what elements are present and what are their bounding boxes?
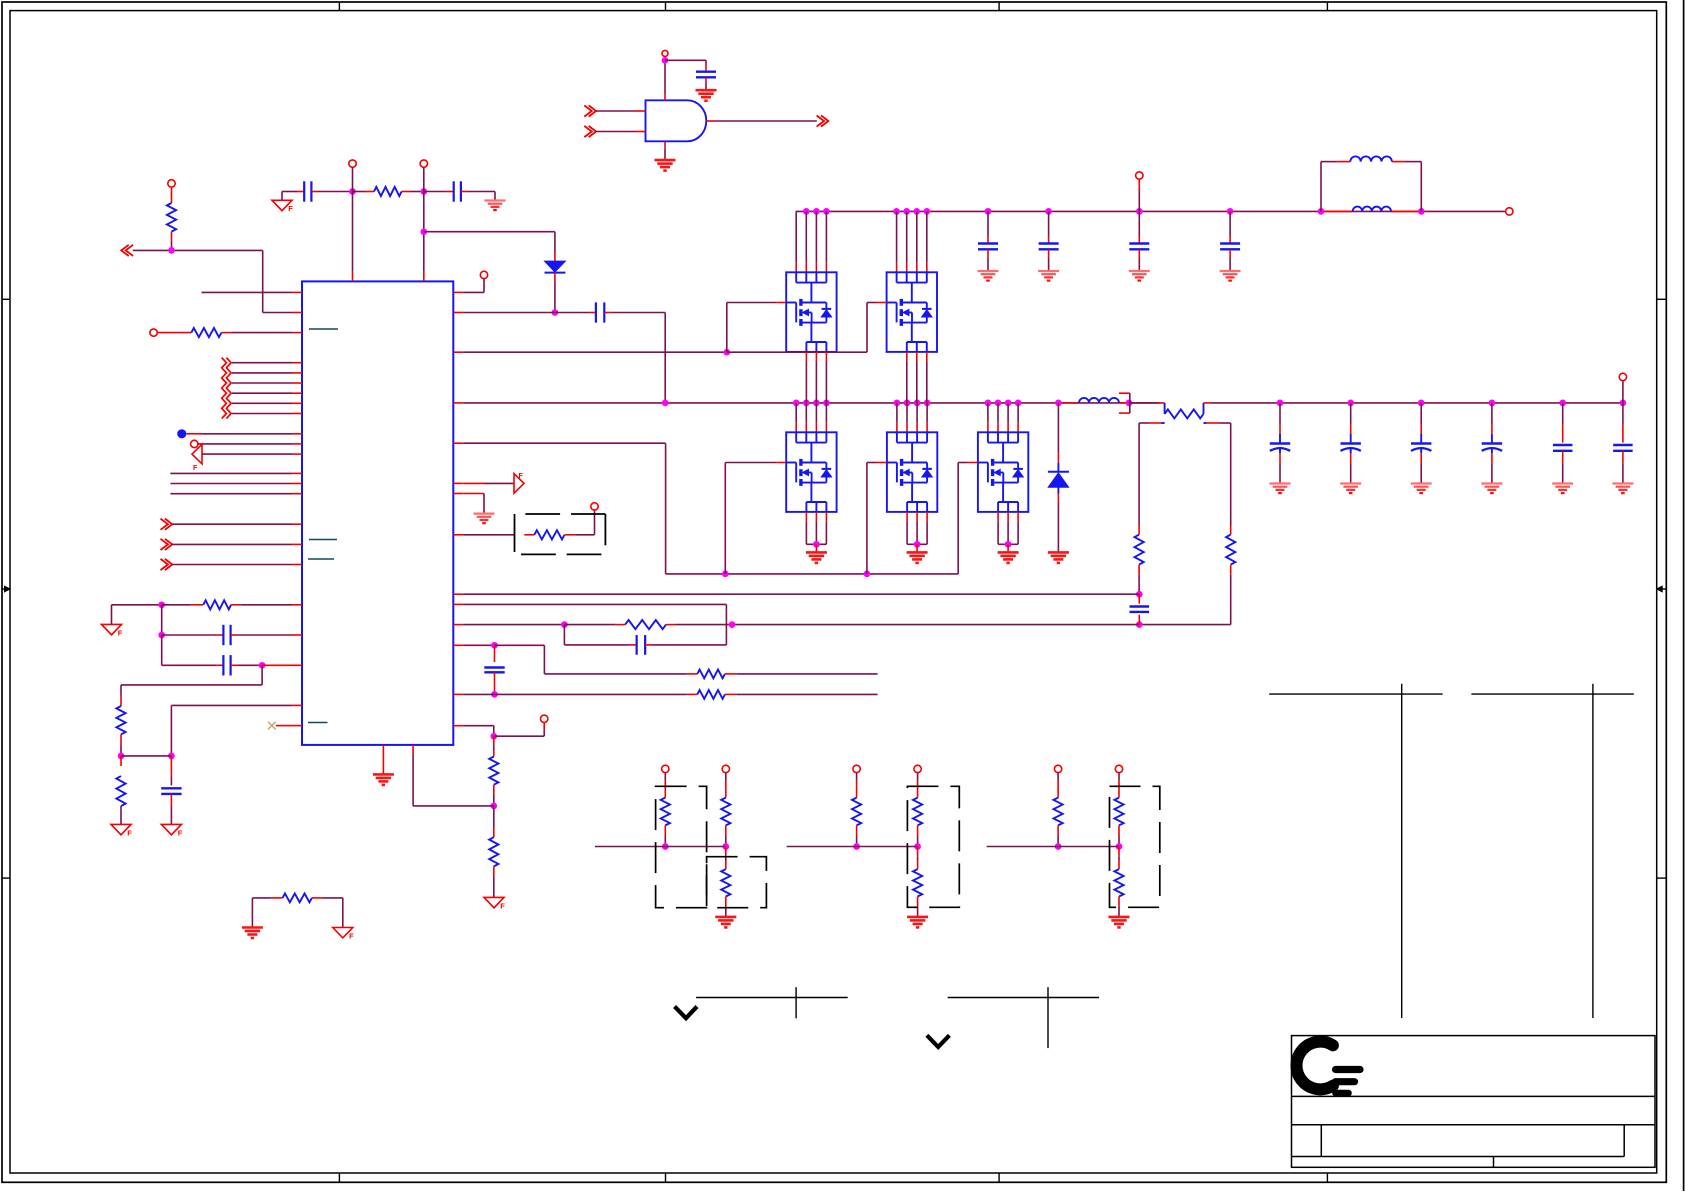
power flag F right row 483: [463, 482, 484, 484]
wire C down: [161, 605, 163, 635]
resistor R1 (pull-up): [168, 180, 175, 187]
resistor (divider top): [661, 798, 670, 826]
node L junction: [1126, 400, 1133, 407]
node N junction: [1136, 621, 1143, 628]
ground: [806, 551, 827, 554]
resistor R10: [564, 624, 615, 626]
node K junction: [552, 309, 559, 316]
node O junction: [561, 621, 568, 628]
no-connect x row 725: [276, 725, 292, 727]
U2 power pin net: [664, 93, 666, 100]
resistor R6: [353, 191, 366, 193]
resistor (divider top): [852, 798, 861, 826]
node junction: [1116, 843, 1123, 850]
ground: [907, 551, 928, 554]
revision table vertical B: [1592, 684, 1594, 1018]
earth ground: [1340, 482, 1361, 484]
capacitor C9: [1138, 211, 1140, 236]
earth ground: [485, 199, 506, 201]
border mid arrow left: [2, 588, 10, 590]
resistor R14: [493, 736, 495, 746]
gate drive low-side (row 443): [463, 442, 665, 444]
power flag F below R5: [111, 824, 131, 834]
wire D down: [161, 635, 163, 665]
node Q junction: [491, 642, 498, 649]
resistor R15: [493, 806, 495, 827]
node G junction: [168, 753, 175, 760]
border zone ticks top: [338, 2, 340, 11]
node junction: [662, 843, 669, 850]
svg-text:F: F: [519, 473, 524, 480]
U1 right pins: [453, 291, 463, 293]
node junction: [853, 843, 860, 850]
power flag F (left) row 454: [192, 444, 202, 464]
capacitor C4: [282, 191, 297, 193]
pin header J3 (bus end): [1506, 208, 1513, 215]
wires bus to Q3/Q4/Q5 top pins: [795, 403, 797, 422]
wire net P1 to U1: [133, 249, 263, 251]
earth ground: [1220, 270, 1241, 272]
pin header J4: [1136, 172, 1143, 179]
dashed module box: [707, 857, 767, 908]
resistor R9 (sense right): [1230, 525, 1232, 535]
AND gate U2: [646, 100, 707, 141]
wire row 312 net (boot): [463, 312, 548, 314]
node C junction: [158, 601, 165, 608]
resistor (divider top 2): [913, 798, 922, 826]
capacitor C11: [589, 312, 596, 314]
ground: [696, 89, 717, 92]
wire row 705: [171, 704, 292, 706]
wires ports to U1: [172, 523, 292, 525]
ground: [998, 551, 1019, 554]
ground: [1048, 551, 1069, 554]
datum line 2: [948, 997, 1099, 999]
wire I down to U1: [423, 192, 425, 272]
datum tick 1: [795, 987, 797, 1018]
dashed module box: [656, 786, 707, 907]
border zone ticks bottom: [338, 1173, 340, 1182]
resistor (divider bottom): [917, 847, 919, 857]
wire J to diode: [424, 231, 555, 233]
datum tick 2: [1047, 987, 1049, 1048]
pin header: [722, 765, 729, 772]
node F junction: [118, 753, 125, 760]
capacitor C20: [1622, 403, 1624, 424]
border zone ticks left: [2, 298, 10, 300]
wires bus to Q1 top pins: [795, 211, 797, 262]
earth ground: [1038, 270, 1059, 272]
svg-text:F: F: [193, 465, 198, 472]
circle pin row 444: [191, 440, 198, 447]
capacitor C10: [1229, 211, 1231, 236]
transistor Q2 (dual MOSFET pack): [887, 272, 937, 352]
ground: [1109, 916, 1130, 919]
svg-text:F: F: [349, 931, 354, 940]
capacitor C12: [1138, 594, 1140, 604]
pin header: [662, 765, 669, 772]
resistor (divider top 2): [721, 798, 730, 826]
wire stubs rows 473-494: [170, 472, 292, 474]
ground: [907, 916, 928, 919]
border zone ticks right: [1657, 298, 1667, 300]
resistor (divider top): [1054, 798, 1063, 826]
node R junction: [491, 691, 498, 698]
capacitor C6: [705, 65, 707, 72]
node junction: [722, 843, 729, 850]
chevron chain ports (6 rows): [226, 358, 231, 419]
ground: [242, 926, 263, 929]
revision table line A: [1269, 693, 1442, 695]
node S junction: [490, 733, 497, 740]
port P1 (left chevron): [121, 245, 128, 256]
wires chevron rows: [232, 362, 292, 364]
diode D1: [554, 252, 556, 261]
wire gate drive Q1/Q2 (row 352): [463, 351, 727, 353]
capacitor C7: [987, 211, 989, 236]
resistor R12: [495, 693, 687, 695]
wire row 645: [463, 644, 494, 646]
inductor L1 (top): [1320, 162, 1322, 212]
port P7 output: [821, 115, 828, 126]
capacitor C8: [1048, 211, 1050, 236]
U1 ground pin: [382, 755, 384, 775]
node A junction: [168, 247, 175, 254]
diode D2: [1055, 400, 1062, 407]
svg-text:F: F: [178, 828, 183, 837]
svg-text:F: F: [118, 628, 123, 637]
node P junction: [729, 621, 736, 628]
node I junction: [420, 188, 427, 195]
node D junction: [158, 632, 165, 639]
pin header J1: [349, 160, 356, 167]
border mid arrow right: [1657, 588, 1667, 590]
pin header: [1054, 765, 1061, 772]
resistor R2 (row 332): [150, 329, 157, 336]
resistor R4: [120, 696, 122, 706]
capacitor C5: [424, 191, 447, 193]
ground row 493: [463, 493, 484, 495]
wire +V bus: [796, 210, 1506, 212]
ground: [373, 773, 394, 776]
transistor Q4 (dual MOSFET pack): [887, 432, 937, 512]
resistor R11: [544, 673, 687, 675]
capacitor C19: [1562, 403, 1564, 424]
node junction: [1055, 843, 1062, 850]
wire row 846: [987, 846, 1119, 848]
inductor L3: [1062, 402, 1079, 404]
node B blue dot port: [177, 429, 186, 438]
earth ground: [978, 270, 999, 272]
resistor R3: [162, 604, 191, 606]
earth ground: [1270, 482, 1291, 484]
pin header J6: [591, 503, 598, 510]
op-amp U1 controller IC body: [302, 281, 453, 745]
transistor Q1 (dual MOSFET pack): [786, 272, 836, 352]
svg-text:F: F: [127, 828, 132, 837]
phase bus junctions: [662, 400, 669, 407]
wire input A: [596, 110, 635, 112]
capacitor C16 (polarized): [1350, 403, 1352, 424]
wire row 604: [463, 603, 726, 605]
resistor R8 (sense left): [1138, 525, 1140, 535]
resistor R5: [120, 756, 122, 766]
earth ground: [1552, 482, 1573, 484]
node E junction: [259, 662, 266, 669]
wire output bus: [1211, 402, 1623, 404]
U1 internal pin-name overbars: [309, 328, 338, 330]
power flag F row 604: [102, 624, 122, 634]
ground: [715, 916, 736, 919]
resistor (divider bottom): [1118, 847, 1120, 857]
port P6 input B: [589, 126, 596, 137]
node M junction: [1136, 591, 1143, 598]
wire row 694: [463, 693, 494, 695]
transistor Q5 (dual MOSFET pack): [978, 432, 1028, 512]
node H junction: [349, 188, 356, 195]
ground: [655, 159, 676, 162]
pin header J7: [541, 715, 548, 722]
company logo: [1297, 1042, 1333, 1090]
U2 gnd pin: [664, 141, 666, 148]
wire H down to U1: [352, 192, 354, 272]
U1 left pins: [292, 291, 302, 293]
wire row 292 right circle pin: [463, 291, 484, 293]
ports P2-P4 (right chevrons): [165, 519, 172, 530]
node junction: [914, 843, 921, 850]
svg-text:F: F: [288, 204, 293, 213]
wire U1 bottom pin 2: [412, 755, 414, 806]
earth ground: [1612, 482, 1633, 484]
node T junction: [490, 803, 497, 810]
earth ground: [1481, 482, 1502, 484]
wire phase bus: [463, 402, 1160, 404]
earth ground: [1411, 482, 1432, 484]
resistor R16: [252, 897, 271, 899]
capacitor C3: [170, 756, 172, 777]
resistor R7 (current sense): [1129, 402, 1158, 404]
resistor R13 (row 534, in dashed box): [463, 534, 514, 536]
capacitor C18 (polarized): [1491, 403, 1493, 424]
power flag F: [333, 928, 353, 938]
Q3/Q4/Q5 source pins to ground: [805, 512, 807, 522]
inductor L2 (bottom): [1324, 210, 1353, 212]
wire row 846: [595, 846, 726, 848]
U1 top pins: [352, 271, 354, 281]
svg-text:F: F: [500, 901, 505, 910]
power flag F below R15: [484, 897, 504, 907]
wire E down-left: [261, 665, 263, 685]
wire input B: [596, 131, 635, 133]
title block: [1292, 1036, 1656, 1168]
node J junction: [420, 228, 427, 235]
wire stub row 292: [202, 291, 293, 293]
check mark 1: [675, 1007, 697, 1019]
dashed module box: [1110, 786, 1160, 907]
pin header J2: [420, 160, 427, 167]
pin header J8 (Vout): [1619, 373, 1626, 380]
power flag F below C3: [161, 824, 181, 834]
capacitor C2: [162, 664, 217, 666]
capacitor C13: [563, 625, 565, 645]
dashed module box: [514, 514, 516, 552]
wire row 846: [787, 846, 918, 848]
earth ground: [1129, 270, 1150, 272]
port P5 input A: [589, 105, 596, 116]
resistor (divider bottom): [725, 847, 727, 857]
wire sense rows to U1: [463, 593, 1139, 595]
pin header: [853, 765, 860, 772]
capacitor C1: [162, 634, 217, 636]
transistor Q3 (dual MOSFET pack): [786, 432, 836, 512]
L3 coupling bracket: [1119, 392, 1130, 394]
wires Q1/Q2 source pins to bus: [805, 352, 807, 362]
U1 bottom pins: [382, 745, 384, 755]
pin header J5: [480, 271, 487, 278]
capacitor C15 (polarized): [1279, 403, 1281, 424]
bus junction dots: [803, 208, 810, 215]
R7 sense taps: [1162, 422, 1165, 424]
check mark 2: [927, 1035, 950, 1047]
power flag F top: [272, 200, 292, 210]
capacitor C17 (polarized): [1420, 403, 1422, 424]
wire output to port: [706, 120, 715, 122]
dashed module box: [907, 786, 959, 907]
wires bus to Q2 top pins: [896, 211, 898, 262]
capacitor C14: [494, 645, 496, 662]
pin header: [914, 765, 921, 772]
datum line 1: [696, 997, 848, 999]
revision table line B: [1471, 693, 1633, 695]
resistor (divider top 2): [1114, 798, 1123, 826]
wire row 624: [463, 624, 564, 626]
wire row 725: [463, 725, 494, 727]
revision table vertical A: [1401, 684, 1403, 1018]
pin header: [1115, 765, 1122, 772]
